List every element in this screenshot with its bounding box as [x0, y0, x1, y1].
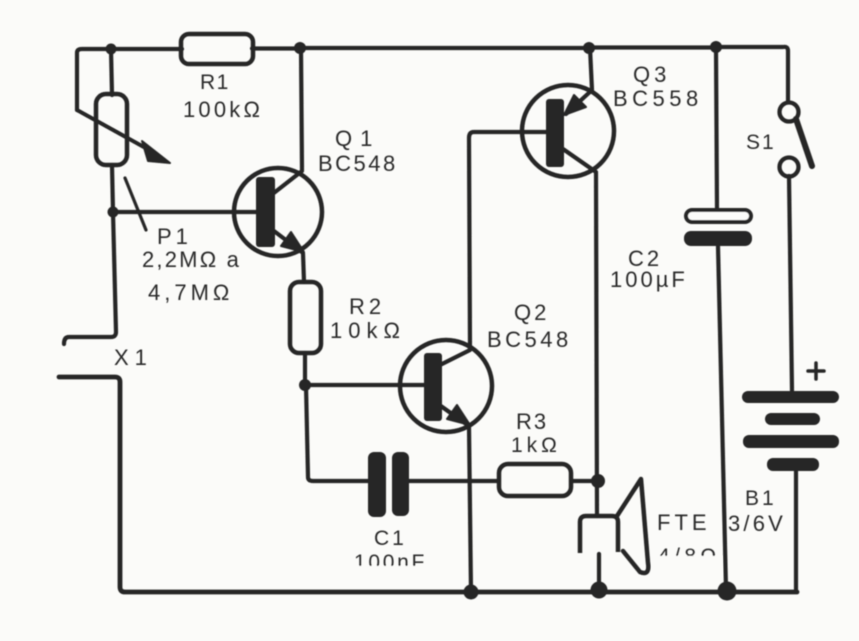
transistor Q2 base bar [424, 353, 442, 421]
svg-text:BC548: BC548 [487, 327, 572, 352]
switch S1 lever [796, 119, 812, 166]
wire top rail node D to S1 corner [716, 47, 788, 102]
transistor Q1 base bar [256, 177, 275, 247]
transistor Q2 circle [400, 340, 492, 432]
wire Q3 emitter from node C [566, 48, 592, 114]
resistor R1 [181, 34, 253, 64]
capacitor C1 left plate [368, 452, 386, 517]
switch S1 top contact [780, 103, 799, 122]
potentiometer P1 wiper arrowhead [142, 141, 170, 163]
potentiometer P1 body [96, 94, 127, 165]
node H [464, 585, 479, 600]
transistor Q3 emitter arrowhead [564, 95, 586, 115]
wire top-left bracket to wiper [77, 49, 111, 110]
battery B1 plate 1 long [742, 391, 839, 403]
capacitor C2 top plate [686, 210, 751, 222]
svg-text:BC548: BC548 [318, 151, 398, 176]
switch S1 bottom contact [780, 158, 799, 177]
capacitor C2 bottom plate [684, 231, 752, 246]
wire R3 right lead to node G [571, 479, 598, 483]
wire top rail R1 to node B [252, 46, 300, 50]
svg-text:1kΩ: 1kΩ [511, 434, 561, 457]
speaker FTE cone [617, 479, 648, 573]
wire top rail node B to node C [300, 46, 589, 50]
battery B1 plate 2 short [765, 413, 820, 425]
svg-text:R3: R3 [516, 409, 548, 434]
svg-text:2,2MΩ a: 2,2MΩ a [142, 247, 241, 272]
battery plus sign [808, 363, 824, 379]
wire P1 top lead [111, 49, 112, 95]
svg-text:100µF: 100µF [610, 267, 688, 292]
battery B1 plate 3 long [743, 435, 839, 448]
wire node F to Q2 base [305, 383, 424, 387]
node B [294, 42, 306, 54]
wire node E down to X1 top stub [64, 212, 116, 344]
wire Q1 emitter down to R2 [270, 228, 304, 282]
svg-text:X1: X1 [114, 345, 153, 370]
resistor R2 [290, 282, 321, 353]
svg-text:100kΩ: 100kΩ [183, 97, 263, 122]
svg-text:C1: C1 [374, 527, 407, 550]
capacitor C1 right plate [392, 452, 409, 516]
svg-text:4,7MΩ: 4,7MΩ [148, 280, 233, 305]
wire X1 bottom stub, left drop and bottom rail [59, 377, 797, 592]
node E [108, 207, 119, 218]
svg-text:Q1: Q1 [335, 126, 380, 151]
wire battery negative to bottom rail [794, 471, 798, 590]
svg-text:3/6V: 3/6V [728, 511, 786, 536]
transistor Q3 circle [522, 85, 614, 177]
node C [583, 42, 595, 54]
wire top rail node C to node D [589, 45, 716, 49]
transistor Q1 circle [234, 168, 322, 256]
node I [591, 582, 608, 599]
wire Q1 collector up to node B [270, 48, 302, 196]
node G [591, 474, 605, 488]
resistor R3 [499, 464, 571, 496]
wire node F down to C1 left plate [306, 385, 370, 481]
battery B1 plate 4 short [767, 458, 819, 471]
svg-text:FTE: FTE [657, 510, 711, 535]
P1 label pointer tick [125, 178, 146, 230]
node A [106, 44, 117, 55]
svg-text:B1: B1 [745, 487, 777, 510]
wire top rail node A to R1 [111, 47, 182, 51]
svg-text:Q3: Q3 [633, 62, 670, 87]
svg-text:BC558: BC558 [613, 86, 703, 111]
potentiometer P1 wiper arrow line [77, 110, 151, 151]
wire C2 bottom lead [718, 246, 726, 589]
svg-text:R1: R1 [200, 71, 230, 94]
transistor Q1 emitter arrowhead [281, 232, 304, 252]
wire C1 right plate to R3 [408, 479, 499, 483]
wire P1 bottom lead [112, 165, 113, 212]
wire speaker bottom lead [597, 554, 601, 589]
node J [718, 582, 737, 601]
speaker FTE frame [580, 516, 618, 553]
node D [710, 41, 722, 53]
svg-text:P1: P1 [157, 224, 192, 249]
svg-text:R2: R2 [349, 294, 385, 319]
wire Q2 emitter down to bottom rail [438, 404, 471, 592]
node F [299, 379, 311, 391]
wire S1 to battery positive [789, 176, 792, 391]
transistor Q2 emitter arrowhead [447, 405, 470, 425]
svg-text:Q2: Q2 [514, 300, 549, 325]
svg-text:S1: S1 [746, 131, 776, 154]
transistor Q3 base bar [546, 99, 564, 167]
wire Q3 collector down through node G to speaker [563, 149, 597, 516]
wire Q2 collector up and over to Q3 base [438, 132, 547, 366]
wire C2 top lead [716, 47, 717, 210]
svg-text:10kΩ: 10kΩ [330, 318, 406, 343]
wire R2 bottom lead to node F [303, 353, 307, 385]
wire node E to Q1 base [113, 210, 258, 214]
